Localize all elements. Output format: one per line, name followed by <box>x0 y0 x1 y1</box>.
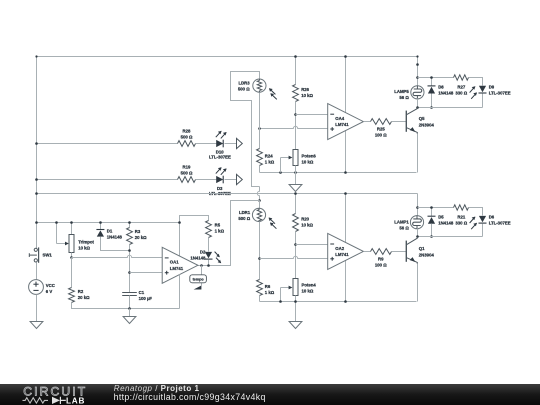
resistor R25 <box>371 119 392 125</box>
flag: tempo net label <box>194 286 202 290</box>
svg-text:R5: R5 <box>215 222 221 227</box>
node: junction 417,56 <box>416 55 418 57</box>
svg-text:R19: R19 <box>183 165 191 170</box>
node: junction 129.5,222.4 <box>128 221 131 224</box>
wire: mid bus y193 <box>37 193 418 195</box>
resistor R5 <box>206 221 212 238</box>
node: junction 36,222.4 <box>35 221 38 224</box>
svg-text:500 Ω: 500 Ω <box>181 134 193 139</box>
node: OA2 inverting junction <box>294 243 297 246</box>
node: OA1 output junction <box>200 264 203 267</box>
node: junction 56.1,222.4 <box>55 221 58 224</box>
wire: upper section ground rail <box>260 172 417 174</box>
resistor R24 <box>257 149 263 166</box>
node: junction 431.75,77.4 <box>430 76 433 79</box>
svg-text:R3: R3 <box>135 229 141 234</box>
node: bus end junction at OA1 V+ column <box>178 221 181 224</box>
LED D6 <box>479 216 486 222</box>
svg-text:tempo: tempo <box>193 278 205 282</box>
footer logo CIRCUIT LAB <box>0 384 540 405</box>
node: junction 36,193.5 <box>35 192 38 195</box>
svg-text:D9: D9 <box>489 84 495 89</box>
diode D1 1N4148 <box>100 223 102 230</box>
photoresistor LDR3 <box>253 79 266 92</box>
svg-text:D5: D5 <box>438 215 444 220</box>
wire: LDR1 bottom to tap <box>259 222 261 280</box>
node: junction 417.3,107.1 <box>416 106 419 109</box>
resistor R6 <box>257 280 263 296</box>
node: junction 345.5,193.5 <box>344 192 347 195</box>
potentiometer Poten6 body <box>293 150 298 166</box>
svg-text:Trimpot: Trimpot <box>78 239 94 244</box>
trimpot Trimpot wiper arrow <box>57 243 66 245</box>
wire: OA4 output to R25 <box>364 121 371 123</box>
svg-text:VCC: VCC <box>46 283 55 288</box>
wire: tempo flag stem <box>201 266 203 286</box>
transistor Q5 2N3904 <box>405 111 407 132</box>
svg-text:20 kΩ: 20 kΩ <box>78 295 90 300</box>
node: junction 295,301.4 <box>294 300 297 303</box>
wire: Q1 emitter down to rail right end <box>417 264 419 302</box>
node: junction 345.5,301.4 <box>344 300 347 303</box>
node: junction left bus / bus179 <box>35 178 38 181</box>
wire: D10 to ground flag <box>225 143 237 145</box>
trimpot Trimpot body <box>69 235 74 253</box>
wire: R5 to D2 <box>208 238 210 252</box>
svg-text:LAMP1: LAMP1 <box>394 219 409 224</box>
wire: R28 to D10 <box>196 143 217 145</box>
voltage source VCC 6V <box>29 280 44 295</box>
node: lamp1 circuit top junction <box>416 206 419 209</box>
svg-text:LDR1: LDR1 <box>239 210 251 215</box>
wire: VCC to ground <box>36 295 38 322</box>
ground below C1 <box>129 309 131 317</box>
wire: top supply bus <box>37 56 418 58</box>
wire: loop down to node A (hops bus y193) <box>257 187 259 201</box>
resistor R3 <box>127 228 133 245</box>
wire: trimpot top from bus <box>71 223 73 235</box>
resistor R19 <box>178 177 196 183</box>
wire: OA1 minus input wire (hops R3 column) <box>72 255 163 257</box>
svg-text:1N4148: 1N4148 <box>107 234 123 239</box>
wire: R2 bottom corner to rail <box>72 303 180 309</box>
op-amp OA4 LM741 <box>328 104 364 140</box>
LED D9 <box>479 86 486 92</box>
node: junction 280.9,172.25 <box>279 171 282 174</box>
wire: R26 to inverting node <box>295 102 297 150</box>
svg-text:330 Ω: 330 Ω <box>455 221 467 226</box>
svg-text:LM741: LM741 <box>335 252 349 257</box>
node: junction 71.8,222.4 <box>70 221 73 224</box>
svg-text:500 Ω: 500 Ω <box>238 87 250 92</box>
wire: R20 to minus node and Poten4 <box>295 232 297 279</box>
wire: lower section rail <box>260 301 417 303</box>
svg-text:OA1: OA1 <box>170 260 179 265</box>
svg-text:D1: D1 <box>107 228 113 233</box>
wire: to OA4 plus input (hops R26 column) <box>260 126 328 128</box>
svg-text:LDR3: LDR3 <box>238 81 250 86</box>
node: junction 295,193.5 <box>294 192 297 195</box>
wire: top bus right corner down <box>417 57 419 86</box>
wire: lamp top wire to R27 <box>418 77 454 79</box>
svg-text:100 Ω: 100 Ω <box>375 263 387 268</box>
node: trimpot bottom junction <box>70 256 73 259</box>
node: junction 280.5,301.4 <box>279 300 282 303</box>
svg-text:R25: R25 <box>377 127 385 132</box>
wire: Poten4 bottom to rail <box>295 296 297 302</box>
node: LDR3/R24 divider tap <box>258 127 261 130</box>
wire: OA4 V- pin to rail <box>345 131 347 173</box>
wire: OA4 V+ pin to top bus <box>345 57 347 114</box>
svg-text:1 kΩ: 1 kΩ <box>265 159 275 164</box>
wire: lamp bottom <box>417 99 419 108</box>
node: D1/R3 junction <box>128 249 131 252</box>
wire: bus y193 right corner down to lamp circuit <box>417 194 419 216</box>
node: top-left corner junction <box>35 55 37 57</box>
node: junction 100.4,222.4 <box>99 221 102 224</box>
diode D5 1N4148 <box>431 208 433 217</box>
svg-text:10 kΩ: 10 kΩ <box>301 93 313 98</box>
wire: lamp1 bottom <box>417 229 419 237</box>
wire: trimpot feed from bus <box>56 223 58 244</box>
svg-text:R6: R6 <box>265 284 271 289</box>
node: D2 bottom junction <box>207 264 210 267</box>
wire: OA2 V+ pin to bus y193 <box>345 194 347 243</box>
svg-text:1 kΩ: 1 kΩ <box>215 228 225 233</box>
wire: lamp circuit bottom wire <box>418 107 483 109</box>
ground (rotated right) after D3 <box>237 174 243 184</box>
node: junction 345.5,172.25 <box>344 171 347 174</box>
wire: trimpot bottom to minus wire <box>71 253 73 258</box>
svg-text:100 µF: 100 µF <box>139 296 153 301</box>
svg-text:500 Ω: 500 Ω <box>181 171 193 176</box>
ground below VCC <box>30 322 43 329</box>
svg-text:10 kΩ: 10 kΩ <box>78 245 90 250</box>
node: junction left bus / bus143 <box>35 142 38 145</box>
svg-text:LTL-307EE: LTL-307EE <box>489 90 511 95</box>
node: junction 295,56 <box>294 55 297 58</box>
svg-text:D6: D6 <box>489 215 495 220</box>
node: LDR1/R6 divider tap <box>258 257 261 260</box>
wire: R6 to lower rail corner <box>259 296 261 302</box>
svg-text:D2: D2 <box>200 249 206 254</box>
ground (rotated right) after D10 <box>237 138 243 148</box>
wire: LDR3 bottom to divider tap <box>259 93 261 149</box>
wire: R24 to upper rail corner <box>259 166 261 173</box>
node: plus input tap junction <box>128 271 131 274</box>
wire: R2 column <box>71 258 73 288</box>
svg-text:LAMP5: LAMP5 <box>394 89 409 94</box>
svg-text:R9: R9 <box>378 257 384 262</box>
svg-text:10 kΩ: 10 kΩ <box>301 222 313 227</box>
wire: R9 to Q1 base <box>392 251 407 253</box>
svg-text:56 Ω: 56 Ω <box>399 95 409 100</box>
node: junction 345.5,56 <box>344 55 347 58</box>
svg-text:56 Ω: 56 Ω <box>399 225 409 230</box>
svg-text:R21: R21 <box>457 215 465 220</box>
node: junction 295,172.25 <box>294 171 297 174</box>
wire: R20 column from bus y193 <box>295 194 297 214</box>
wire: SW1 to VCC <box>36 263 38 280</box>
svg-text:LTL-307EE: LTL-307EE <box>209 155 231 160</box>
node: junction 417.3,236.75 <box>416 235 419 238</box>
node: junction 431.75,107.1 <box>430 106 433 109</box>
node: junction 431.75,207.75 <box>430 206 433 209</box>
svg-text:20 kΩ: 20 kΩ <box>135 235 147 240</box>
svg-text:1N4148: 1N4148 <box>190 255 206 260</box>
resistor R20 <box>293 214 299 232</box>
wire: D6 bottom <box>482 224 484 237</box>
node: junction 431.75,236.75 <box>430 235 433 238</box>
transistor Q1 2N3904 <box>405 241 407 262</box>
resistor R28 <box>178 141 196 147</box>
wire: Poten4 wiper <box>281 287 290 289</box>
resistor R9 <box>371 249 392 255</box>
wire: Q5 emitter down to rail <box>417 134 419 173</box>
wire: R3 top from bus <box>129 223 131 228</box>
svg-text:1N4148: 1N4148 <box>438 221 454 226</box>
svg-text:Poten4: Poten4 <box>302 282 317 287</box>
node: OA4 inverting input junction <box>294 113 297 116</box>
wire: R26 column from top bus <box>295 57 297 85</box>
svg-text:500 Ω: 500 Ω <box>238 216 250 221</box>
wire: D3 to ground flag <box>225 179 237 181</box>
wire: R25 to Q5 base <box>392 121 407 123</box>
wire: to OA4 minus input <box>296 114 328 116</box>
node A: LDR tops / OA1 output node <box>258 199 261 202</box>
wire: R21 to D6 corner <box>469 208 483 216</box>
resistor R21 <box>454 205 469 210</box>
lamp LAMP5 <box>411 86 424 99</box>
svg-text:LTL-307EE: LTL-307EE <box>489 221 511 226</box>
wire: lower-left bus y222 <box>37 222 180 224</box>
capacitor C1 100uF <box>122 292 137 294</box>
footer text <box>114 384 200 393</box>
svg-text:C1: C1 <box>139 290 145 295</box>
wire: lamp1 top wire to R21 <box>418 207 454 209</box>
svg-text:D8: D8 <box>438 84 444 89</box>
diode D8 1N4148 <box>431 78 433 86</box>
wire: to OA2 minus input <box>296 244 328 246</box>
svg-text:1N4148: 1N4148 <box>438 90 454 95</box>
wire: Poten6 wiper <box>281 157 290 159</box>
wire: R27 to D9 corner <box>469 78 483 86</box>
svg-text:Q1: Q1 <box>419 246 425 251</box>
switch SW1 (pushbutton) <box>34 248 37 251</box>
wire: left supply bus vertical <box>36 57 38 249</box>
node: lamp circuit top-left junction <box>416 76 419 79</box>
wire: R3 down to C1 (through junctions) <box>129 245 131 293</box>
wire: D1 bottom over to R3 column <box>101 237 130 251</box>
svg-text:10 kΩ: 10 kΩ <box>302 159 314 164</box>
svg-text:R28: R28 <box>183 128 191 133</box>
LED D2 (pointing down) <box>205 252 212 258</box>
lamp LAMP1 <box>410 216 423 229</box>
LED D10 <box>216 140 223 147</box>
svg-text:LAB: LAB <box>66 396 85 405</box>
svg-text:R27: R27 <box>457 84 465 89</box>
ground below Poten6 <box>295 173 297 185</box>
svg-text:2N3904: 2N3904 <box>419 123 435 128</box>
wire: OA1 plus input wire <box>130 272 163 274</box>
svg-text:R20: R20 <box>301 216 309 221</box>
wire: R19 to D3 <box>196 179 217 181</box>
svg-text:Poten6: Poten6 <box>302 153 317 158</box>
svg-text:LM741: LM741 <box>170 266 184 271</box>
svg-text:330 Ω: 330 Ω <box>455 90 467 95</box>
svg-text:10 kΩ: 10 kΩ <box>302 288 314 293</box>
LED D3 <box>216 176 223 183</box>
wire: to OA2 plus input (hops R20 column) <box>260 256 328 258</box>
wire: Poten6 bottom to rail <box>295 166 297 173</box>
wire: node to LDR1 box <box>198 201 260 266</box>
wire: LDR3 top loop <box>231 72 260 187</box>
svg-text:R2: R2 <box>78 289 84 294</box>
wire: OA1 V- to rail1 <box>179 275 181 309</box>
wire: OA2 output to R9 <box>364 251 371 253</box>
resistor R27 <box>454 75 469 80</box>
ground below Poten4 <box>295 302 297 322</box>
wire: lamp1 circuit bottom wire <box>418 236 483 238</box>
svg-text:Q5: Q5 <box>419 116 425 121</box>
svg-text:1 kΩ: 1 kΩ <box>265 290 275 295</box>
svg-text:6 V: 6 V <box>46 289 53 294</box>
svg-text:OA4: OA4 <box>335 116 344 121</box>
svg-text:LM741: LM741 <box>335 122 349 127</box>
svg-text:2N3904: 2N3904 <box>419 253 435 258</box>
svg-text:SW1: SW1 <box>43 253 53 258</box>
op-amp OA2 LM741 <box>328 233 364 269</box>
wire: OA2 V- pin to lower rail <box>345 260 347 302</box>
wire: D2 bottom to output node <box>208 260 210 266</box>
resistor R2 <box>69 288 75 303</box>
node: C1 bottom junction <box>128 307 131 310</box>
op-amp OA1 LM741 <box>162 247 198 283</box>
svg-text:100 Ω: 100 Ω <box>375 133 387 138</box>
potentiometer Poten4 body <box>293 279 298 296</box>
wire: bus to R19 <box>37 179 178 181</box>
wire: bus to R28 <box>37 143 178 145</box>
node: junction at y64 <box>416 63 419 66</box>
svg-text:OA2: OA2 <box>335 246 344 251</box>
photoresistor LDR1 <box>259 201 261 209</box>
svg-text:R24: R24 <box>265 153 273 158</box>
wire: D9 bottom to lamp bottom wire <box>482 94 484 108</box>
svg-text:R26: R26 <box>301 87 309 92</box>
resistor R26 <box>293 85 299 102</box>
wire: OA1 V+ pin chain to R5 <box>180 216 209 257</box>
